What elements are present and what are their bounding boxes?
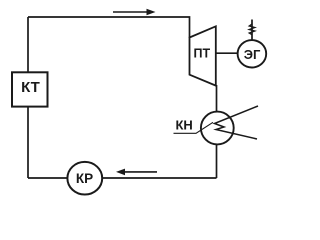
cooling water zigzag through condenser: [215, 106, 259, 139]
shaft (turbine to generator): [216, 52, 238, 54]
wire left (top corner down to boiler): [27, 17, 29, 72]
flow arrow bottom (condensate direction): [116, 169, 157, 176]
electrical output symbol above generator: [249, 20, 254, 41]
svg-text:КН: КН: [176, 117, 193, 132]
condenser KN: [201, 112, 234, 145]
wire left lower (boiler down to bottom wire): [27, 107, 29, 178]
pump KP: [67, 162, 102, 195]
wire right lower (bottom corner up to condenser): [216, 144, 218, 178]
svg-text:ПТ: ПТ: [193, 46, 210, 60]
svg-text:ЭГ: ЭГ: [244, 47, 261, 62]
wire bottom right (condenser to pump): [102, 177, 216, 179]
svg-text:КТ: КТ: [21, 79, 40, 96]
turbine PT: [190, 26, 216, 85]
svg-text:КР: КР: [76, 171, 93, 186]
boiler KT: [12, 72, 48, 106]
wire top (boiler to turbine): [28, 17, 190, 38]
wire bottom left (corner to pump): [28, 177, 69, 179]
label KN with leader line: [174, 117, 214, 133]
generator EG: [238, 40, 267, 67]
flow arrow top (steam direction): [113, 9, 156, 16]
wire turbine exhaust (turbine to condenser): [216, 85, 218, 112]
